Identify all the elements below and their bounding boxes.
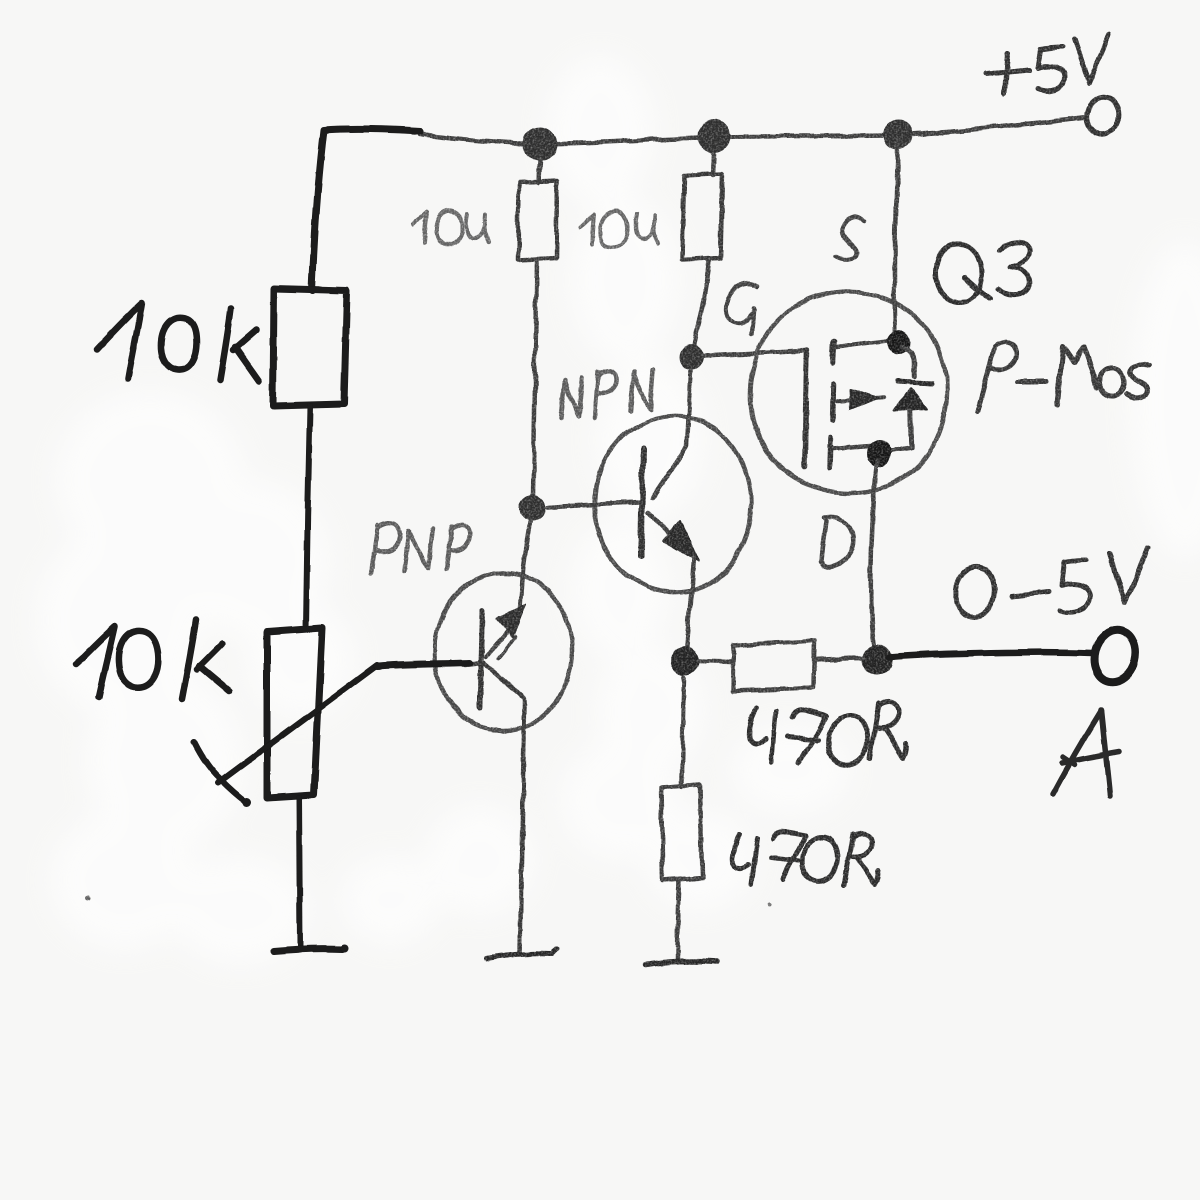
label +5V: [986, 35, 1109, 94]
node junction dot top rail middle: [697, 119, 731, 153]
resistor R4 10K body: [682, 174, 722, 260]
potentiometer arrow barb: [194, 742, 246, 802]
small speck left: [86, 896, 91, 901]
terminal +5V: [1084, 95, 1123, 137]
Q3 body diode bar: [897, 382, 931, 384]
label NPN: [561, 370, 653, 418]
resistor R3 10K stub: [539, 160, 540, 182]
label 0-5V: [956, 548, 1148, 617]
Q3 gate bar: [805, 351, 807, 467]
Q2 emitter diagonal and arrow: [486, 620, 518, 657]
node G junction dot: [679, 344, 705, 370]
resistor R2 10K pot body: [267, 628, 322, 798]
wire R1 to R2: [306, 406, 310, 629]
Q3 source junction blob: [887, 330, 911, 354]
wire node A to output terminal: [889, 652, 1092, 657]
value label 470R (R6): [733, 832, 879, 885]
Q1 emitter with arrow: [648, 512, 690, 554]
Q1 base bar: [641, 449, 643, 556]
Q3 channel bar bottom: [830, 438, 831, 467]
small speck right: [768, 902, 772, 906]
wire top-left corner to rail: [312, 129, 420, 291]
resistor R5 470R body: [732, 641, 815, 691]
Q3 drain junction blob: [866, 440, 892, 466]
Q2 emitter wire from node B: [520, 520, 531, 616]
Q1 emitter wire down to node C: [686, 557, 694, 652]
Q3 source wire from +5V rail: [895, 140, 898, 335]
transistor Q2 PNP circle: [435, 573, 572, 730]
wire R2 to ground: [299, 798, 300, 946]
Q1 base wire from node B: [548, 502, 640, 507]
transistor Q1 NPN circle: [595, 416, 751, 592]
label P-Mos: [978, 342, 1148, 412]
wire R3 to node B: [533, 260, 537, 496]
value label 10K (R4): [580, 211, 658, 247]
resistor R5 470R lead left: [699, 661, 731, 662]
label 10K (R2): [76, 620, 229, 699]
pin label G: [726, 283, 757, 335]
white correction patches: [35, 55, 1200, 965]
transistor Q3 P-MOS circle: [750, 292, 947, 493]
Q3 body connection right: [903, 347, 914, 377]
wire R4 to node G: [693, 260, 710, 352]
resistor R6 470R body: [661, 785, 702, 881]
resistor R3 10K body: [518, 180, 557, 260]
Q3 body arrow: [838, 397, 884, 401]
Q2 base bar: [480, 611, 482, 708]
potentiometer arrow diagonal: [218, 665, 377, 783]
value label 10K (R3): [413, 210, 488, 245]
resistor R6 470R lead bottom: [677, 881, 679, 960]
label A: [1053, 710, 1119, 796]
value label 470R (R5): [749, 702, 907, 766]
ground (R2): [273, 949, 342, 951]
wire node G to MOSFET gate: [705, 351, 808, 356]
resistor R1 10K body: [273, 289, 347, 406]
pin label S: [836, 216, 864, 260]
ground (R6): [645, 961, 716, 965]
ground (Q2 collector): [486, 949, 558, 959]
wire pot wiper to Q2 base: [377, 663, 470, 666]
node A junction dot: [862, 645, 892, 675]
node junction dot top rail right: [883, 120, 913, 150]
Q3 body diode triangle: [895, 389, 927, 411]
wire pencil continuation to Q2 base: [464, 663, 481, 665]
node B junction dot: [520, 495, 546, 521]
node junction dot top rail left: [523, 127, 557, 161]
resistor R5 470R lead right: [816, 658, 863, 660]
terminal A output: [1089, 626, 1140, 686]
node C junction dot: [670, 646, 700, 676]
Q1 collector wire: [652, 371, 691, 498]
resistor R6 470R lead top: [682, 678, 684, 787]
Q3 channel bar top: [832, 341, 833, 363]
Q2 collector wire: [484, 663, 525, 955]
Q3 source link: [836, 340, 892, 347]
label PNP: [371, 523, 469, 574]
pin label D: [821, 517, 853, 568]
resistor R4 10K stub: [713, 154, 714, 176]
label Q3: [936, 241, 1030, 302]
Q3 drain wire down to node A: [871, 460, 877, 653]
label 10K (R1): [97, 303, 259, 381]
Q3 drain link: [834, 446, 869, 449]
Q3 channel bar middle: [833, 384, 834, 420]
wire +5V top rail: [420, 117, 1087, 144]
